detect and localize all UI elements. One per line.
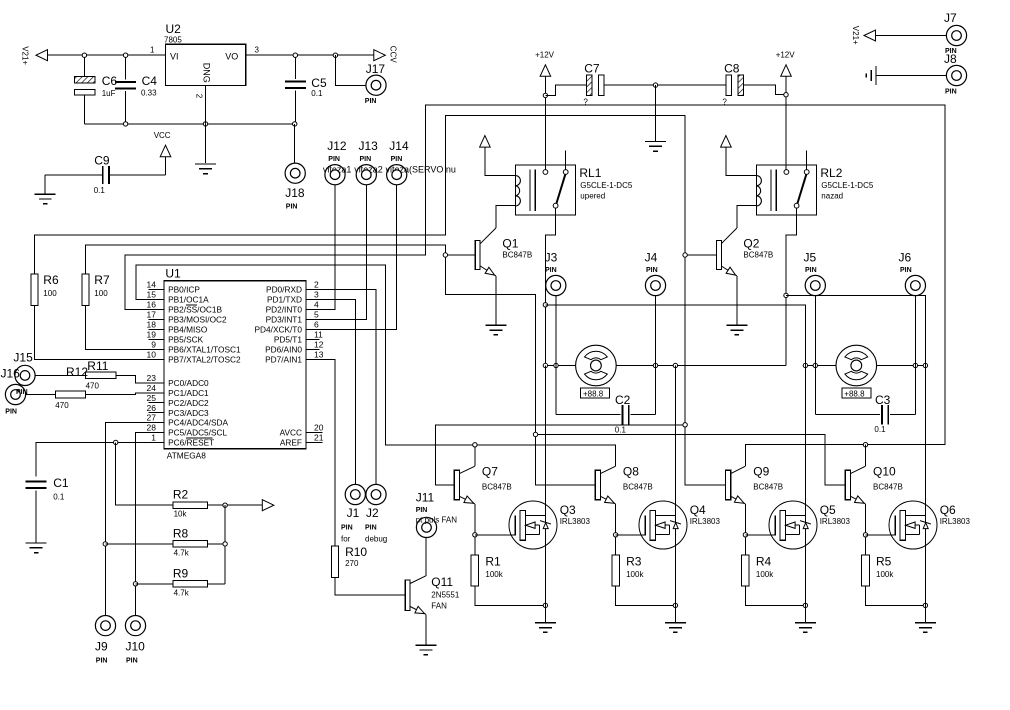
- svg-text:2N5551: 2N5551: [431, 591, 460, 600]
- svg-text:4.7k: 4.7k: [174, 548, 190, 557]
- resistor R7: [82, 274, 89, 306]
- svg-text:470: 470: [86, 382, 100, 391]
- connector J2: [366, 484, 386, 504]
- svg-text:PIN: PIN: [900, 267, 912, 274]
- node motor1 left drain: [543, 363, 547, 367]
- wire +12V to U2 VI: [48, 54, 166, 56]
- wire to mid ground: [655, 85, 657, 141]
- wire J12 to pin4: [322, 185, 335, 309]
- wire branch Q1 base: [445, 254, 475, 256]
- wire J10 line: [136, 433, 149, 616]
- wire R10 to Q11 base: [335, 578, 405, 596]
- resistor R11: [86, 372, 116, 379]
- svg-text:100k: 100k: [876, 570, 894, 579]
- svg-text:PC4/ADC4/SDA: PC4/ADC4/SDA: [168, 418, 228, 428]
- wire pin1 RESET to C1: [36, 442, 148, 476]
- ground Q2: [726, 324, 747, 326]
- svg-text:15: 15: [147, 290, 157, 300]
- node R8 tap J9: [103, 542, 107, 546]
- node motor2 right J6: [913, 363, 917, 367]
- wire J15 to R11: [35, 374, 86, 376]
- svg-text:C1: C1: [53, 476, 69, 490]
- svg-text:V21+: V21+: [21, 46, 30, 65]
- node RL2 common branch: [784, 293, 788, 297]
- svg-text:100k: 100k: [485, 570, 503, 579]
- svg-text:J2: J2: [366, 506, 379, 520]
- svg-text:7805: 7805: [164, 35, 182, 44]
- mosfet Q5 IRL3803: [769, 501, 817, 549]
- relay RL2 G5CLE-1-DC5: [756, 165, 816, 215]
- wire ground Q4: [674, 605, 676, 622]
- ground C9: [35, 193, 56, 195]
- wire RL2 common: [786, 208, 797, 365]
- svg-text:R7: R7: [94, 273, 110, 287]
- node gate Q4: [613, 533, 617, 537]
- svg-text:PB4/MISO: PB4/MISO: [168, 325, 208, 335]
- svg-text:PIN: PIN: [391, 156, 403, 163]
- svg-text:Q8: Q8: [623, 465, 639, 479]
- power arrow VCC pullups: [262, 500, 274, 511]
- connector J18: [285, 163, 305, 183]
- svg-text:470: 470: [55, 401, 69, 410]
- node mid ground: [653, 83, 657, 87]
- wire Q10 emitter to gate and R5: [865, 504, 867, 555]
- svg-text:Q1: Q1: [502, 237, 518, 251]
- relay RL1 G5CLE-1-DC5: [515, 165, 575, 215]
- svg-text:4.7k: 4.7k: [174, 588, 190, 597]
- svg-text:J4: J4: [645, 251, 658, 265]
- node C8 +12V: [784, 93, 788, 97]
- motor M1: [576, 345, 617, 386]
- svg-text:J13: J13: [359, 139, 379, 153]
- wire ground Q5: [804, 605, 806, 622]
- wire R5 to source node: [866, 586, 926, 605]
- svg-text:R8: R8: [173, 526, 189, 540]
- wire U2 VO to VCC arrow: [246, 54, 376, 56]
- wire Q7 emitter to gate and R1: [474, 504, 476, 555]
- wire R9 right: [207, 583, 225, 585]
- wire R8 right: [207, 543, 225, 545]
- svg-text:upered: upered: [580, 192, 605, 201]
- node C5 bottom / J18 branch: [293, 122, 297, 126]
- power arrow at RL1 coil: [480, 136, 491, 148]
- wire pullup bus: [224, 505, 226, 584]
- wire pin2 to J2: [322, 289, 376, 485]
- svg-text:PIN: PIN: [328, 156, 340, 163]
- svg-text:C3: C3: [875, 393, 891, 407]
- svg-text:J10: J10: [126, 640, 146, 654]
- svg-text:C2: C2: [615, 393, 631, 407]
- svg-text:PIN: PIN: [16, 389, 28, 396]
- connector J4: [655, 296, 657, 415]
- capacitor C1: [26, 481, 47, 483]
- capacitor C5: [294, 55, 296, 79]
- node motor1 right drain: [673, 363, 677, 367]
- svg-text:2: 2: [195, 94, 204, 99]
- ground Q11: [415, 644, 436, 646]
- svg-text:R1: R1: [485, 555, 501, 569]
- svg-text:5: 5: [314, 310, 319, 320]
- pin 11 PD5/T1: [306, 338, 320, 340]
- svg-text:11: 11: [314, 330, 323, 340]
- svg-text:C7: C7: [584, 62, 600, 76]
- ground Q6: [915, 622, 936, 624]
- node Q8/Q10 base branch: [533, 432, 537, 436]
- wire R2 to VCC arrow: [207, 504, 264, 506]
- pin 16 PB2/SS/OC1B: [148, 308, 164, 310]
- svg-text:J15: J15: [13, 351, 33, 365]
- wire drain Q3: [544, 366, 546, 606]
- wire U2 pin2 to ground: [205, 86, 207, 164]
- svg-text:PD3/INT1: PD3/INT1: [266, 315, 303, 325]
- wire R3 to source node: [616, 586, 676, 605]
- resistor R3: [612, 555, 620, 586]
- wire to J17: [335, 55, 366, 85]
- wire motor2 row: [805, 365, 925, 367]
- svg-text:100: 100: [43, 289, 57, 298]
- wire R9 left: [136, 583, 174, 585]
- resistor R9: [173, 581, 208, 588]
- node C4 bottom: [123, 122, 127, 126]
- svg-text:3: 3: [314, 290, 319, 300]
- connector J7: [946, 25, 966, 45]
- capacitor C8 polarized: [726, 75, 732, 96]
- wire J8: [876, 75, 946, 77]
- svg-text:J14: J14: [389, 139, 409, 153]
- ground Q5: [795, 622, 816, 624]
- svg-text:IRL3803: IRL3803: [820, 517, 851, 526]
- pin 3 PD1/TXD: [306, 298, 322, 300]
- svg-text:C5: C5: [311, 76, 327, 90]
- svg-text:BC847B: BC847B: [623, 483, 653, 492]
- node R9 tap J10: [133, 582, 137, 586]
- node U2 GND pin: [203, 122, 207, 126]
- wire to J18: [294, 124, 296, 163]
- pin 19 PB5/SCK: [148, 338, 164, 340]
- node motor2 right drain: [923, 363, 927, 367]
- svg-text:Q3: Q3: [560, 503, 576, 517]
- svg-text:J3: J3: [545, 251, 558, 265]
- pin 12 PD6/AIN0: [306, 348, 320, 350]
- wire Q8 emitter to gate and R3: [615, 504, 617, 555]
- wire R6 to pin10: [34, 306, 148, 360]
- wire R4 to source node: [745, 586, 805, 605]
- connector J6: [914, 296, 916, 415]
- resistor R8: [173, 541, 208, 548]
- svg-text:R10: R10: [345, 545, 367, 559]
- svg-text:PB5/SCK: PB5/SCK: [168, 335, 204, 345]
- node Q1 base: [443, 253, 447, 257]
- svg-text:PIN: PIN: [126, 658, 138, 665]
- svg-text:18: 18: [147, 320, 157, 330]
- power arrow VCC out: [374, 50, 386, 61]
- svg-text:PB0/ICP: PB0/ICP: [168, 285, 200, 295]
- svg-text:PD6/AIN0: PD6/AIN0: [265, 345, 302, 355]
- node C4 top: [123, 53, 127, 57]
- svg-text:0.1: 0.1: [53, 493, 65, 502]
- wire jog to C7: [545, 85, 586, 95]
- svg-text:VI: VI: [170, 52, 179, 62]
- wire drain Q5: [804, 342, 806, 606]
- svg-text:10k: 10k: [174, 510, 188, 519]
- connector J12: [325, 165, 345, 185]
- wire R11 to pin23: [116, 375, 148, 383]
- svg-text:13: 13: [314, 350, 324, 360]
- svg-text:26: 26: [147, 403, 157, 413]
- pin 6 PD4/XCK/T0: [306, 328, 322, 330]
- pin 20 AVCC: [306, 432, 322, 434]
- svg-text:1uF: 1uF: [102, 89, 116, 98]
- svg-text:16: 16: [147, 300, 157, 310]
- svg-text:PC6/RESET: PC6/RESET: [168, 438, 214, 448]
- svg-text:23: 23: [147, 373, 157, 383]
- svg-text:Q5: Q5: [820, 503, 836, 517]
- node gate Q5: [743, 533, 747, 537]
- svg-text:BC847B: BC847B: [482, 483, 512, 492]
- svg-text:+12V: +12V: [776, 51, 796, 60]
- node source Q5: [803, 603, 807, 607]
- connector J8: [946, 65, 966, 85]
- wire branch Q10 base: [536, 435, 846, 485]
- wire R12 to pin24: [86, 393, 149, 395]
- wire branch Q2 base: [685, 254, 716, 256]
- node source Q4: [673, 603, 677, 607]
- wire pin13 to R10: [322, 359, 335, 546]
- connector J1: [345, 484, 365, 504]
- connector J13: [356, 165, 376, 185]
- pin 5 PD3/INT1: [306, 318, 322, 320]
- svg-text:PC5/ADC5/SCL: PC5/ADC5/SCL: [168, 428, 227, 438]
- svg-text:PIN: PIN: [365, 525, 377, 532]
- node gate Q6: [863, 533, 867, 537]
- node R8 right: [223, 542, 227, 546]
- svg-text:J6: J6: [899, 251, 912, 265]
- svg-text:BC847B: BC847B: [743, 251, 773, 260]
- power arrow +12V at J7: [864, 30, 876, 41]
- resistor R10: [332, 546, 339, 578]
- svg-text:21: 21: [314, 433, 324, 443]
- svg-text:PIN: PIN: [365, 98, 377, 105]
- wire J9 line: [105, 423, 148, 616]
- svg-text:J5: J5: [804, 251, 817, 265]
- svg-text:Q11: Q11: [431, 575, 453, 589]
- transistor Q10 BC847B: [845, 470, 850, 500]
- connector J9: [95, 616, 115, 636]
- regulator U2 7805: [166, 44, 246, 85]
- node C5 top: [293, 53, 297, 57]
- wire drain Q4: [674, 366, 676, 606]
- svg-text:RL1: RL1: [579, 166, 601, 180]
- svg-text:Q9: Q9: [753, 465, 769, 479]
- pin 28 PC5/ADC5/SCL: [148, 431, 164, 433]
- svg-text:R9: R9: [173, 566, 189, 580]
- svg-text:J9: J9: [95, 640, 108, 654]
- svg-text:VO: VO: [225, 52, 238, 62]
- node Q7 base branch: [683, 423, 687, 427]
- svg-text:RL2: RL2: [820, 166, 842, 180]
- svg-text:VCC: VCC: [154, 131, 171, 140]
- svg-text:20: 20: [314, 423, 324, 433]
- svg-text:17: 17: [147, 310, 157, 320]
- transistor Q1 BC847B: [475, 240, 480, 269]
- svg-text:0.1: 0.1: [615, 425, 627, 434]
- svg-text:100: 100: [94, 289, 108, 298]
- svg-text:C4: C4: [142, 74, 158, 88]
- node source Q3: [543, 603, 547, 607]
- wire RESET down to R2: [116, 442, 173, 505]
- svg-text:U1: U1: [165, 267, 181, 281]
- pin 9 PB6/XTAL1/TOSC1: [148, 348, 164, 350]
- display +88.8 M2: [842, 388, 871, 398]
- svg-text:R2: R2: [173, 488, 189, 502]
- pin 10 PB7/XTAL2/TOSC2: [148, 358, 164, 360]
- capacitor C9: [109, 174, 166, 176]
- wire Q7 collector: [474, 445, 476, 466]
- svg-text:19: 19: [147, 330, 157, 340]
- node motor1 right J4: [653, 363, 657, 367]
- svg-text:PC1/ADC1: PC1/ADC1: [168, 388, 209, 398]
- IC U1 ATMEGA8: [164, 281, 306, 449]
- ground Q4: [665, 622, 686, 624]
- svg-text:27: 27: [147, 413, 157, 423]
- svg-text:PC3/ADC3: PC3/ADC3: [168, 408, 209, 418]
- svg-text:PB2/SS/OC1B: PB2/SS/OC1B: [168, 305, 222, 315]
- pin 17 PB3/MOSI/OC2: [148, 318, 164, 320]
- svg-text:PB1/OC1A: PB1/OC1A: [168, 295, 209, 305]
- wire gate Q3: [475, 534, 515, 536]
- svg-text:3: 3: [255, 46, 260, 55]
- wire gate Q6: [866, 534, 896, 536]
- wire R7 to pin9: [85, 306, 148, 350]
- resistor R1: [471, 555, 479, 586]
- svg-text:R5: R5: [876, 555, 892, 569]
- svg-text:for: for: [341, 535, 351, 544]
- node Q10 collector: [863, 443, 867, 447]
- wire RL1 common: [545, 208, 555, 501]
- pin 1 PC6/RESET: [148, 441, 164, 443]
- svg-text:nazad: nazad: [821, 192, 843, 201]
- svg-text:PD4/XCK/T0: PD4/XCK/T0: [255, 325, 303, 335]
- svg-text:J1: J1: [347, 506, 360, 520]
- svg-text:U2: U2: [166, 22, 182, 36]
- svg-text:DNG: DNG: [201, 63, 211, 83]
- ground Q1: [485, 324, 506, 326]
- svg-text:0.1: 0.1: [94, 186, 106, 195]
- svg-text:J12: J12: [327, 139, 347, 153]
- svg-text:+12V: +12V: [535, 51, 555, 60]
- svg-text:J11: J11: [416, 491, 435, 505]
- svg-text:100k: 100k: [626, 570, 644, 579]
- wire Q10 collector: [865, 445, 867, 467]
- capacitor C4: [125, 55, 127, 79]
- node Q2 base: [683, 253, 687, 257]
- connector J3: [555, 296, 557, 415]
- wire gate Q4: [616, 534, 646, 536]
- svg-text:Q2: Q2: [743, 237, 759, 251]
- svg-text:9: 9: [151, 340, 156, 350]
- connector J14: [387, 165, 407, 185]
- svg-text:2: 2: [314, 280, 319, 290]
- ground at J8: [875, 66, 877, 85]
- node C6/+12V: [82, 53, 86, 57]
- display +88.8 M1: [581, 388, 610, 398]
- wire drain Q6: [924, 342, 926, 606]
- svg-text:Q6: Q6: [940, 503, 956, 517]
- wire J7: [876, 35, 947, 37]
- svg-text:IRL3803: IRL3803: [940, 517, 971, 526]
- wire gate Q5: [745, 534, 775, 536]
- node motor2 left cap tap: [813, 363, 817, 367]
- svg-text:V21+: V21+: [851, 26, 860, 45]
- pin 25 PC2/ADC2: [148, 402, 164, 404]
- svg-text:BC847B: BC847B: [753, 483, 783, 492]
- wire branch Q7 base: [435, 425, 685, 485]
- transistor Q8 BC847B: [595, 470, 600, 500]
- svg-text:PIN: PIN: [545, 267, 557, 274]
- ground U2: [195, 163, 216, 165]
- svg-text:BC847B: BC847B: [502, 251, 532, 260]
- ground bus under regulator: [84, 123, 295, 125]
- connector J11: [416, 517, 436, 537]
- svg-text:J17: J17: [366, 62, 386, 76]
- resistor R12: [55, 391, 85, 398]
- svg-text:PB6/XTAL1/TOSC1: PB6/XTAL1/TOSC1: [168, 345, 241, 355]
- svg-text:1: 1: [150, 46, 155, 55]
- svg-text:1: 1: [151, 433, 156, 443]
- node RESET to R2: [114, 440, 118, 444]
- mosfet Q4 IRL3803: [639, 501, 687, 549]
- svg-text:PD0/RXD: PD0/RXD: [266, 285, 302, 295]
- pin 14 PB0/ICP: [148, 288, 164, 290]
- node C7 +12V: [543, 93, 547, 97]
- svg-text:C8: C8: [724, 62, 740, 76]
- svg-text:R11: R11: [87, 359, 108, 373]
- svg-text:AREF: AREF: [280, 438, 302, 448]
- svg-text:Q7: Q7: [482, 465, 498, 479]
- wire R8 left: [105, 543, 173, 545]
- capacitor C2: [556, 414, 621, 416]
- node RL1 common branch: [543, 303, 547, 307]
- svg-text:28: 28: [147, 423, 157, 433]
- pin 24 PC1/ADC1: [148, 392, 164, 394]
- svg-text:+88.8: +88.8: [583, 389, 604, 398]
- wire motor1 row: [545, 365, 786, 367]
- svg-text:PD5/T1: PD5/T1: [274, 335, 303, 345]
- wire RL1com to motor2 left: [545, 305, 805, 342]
- svg-text:PD2/INT0: PD2/INT0: [266, 305, 303, 315]
- svg-text:R12: R12: [66, 365, 88, 379]
- pin 2 PD0/RXD: [306, 288, 322, 290]
- svg-text:J18: J18: [285, 186, 305, 200]
- capacitor C6 polarized: [83, 55, 85, 76]
- wire Q9 emitter to gate and R4: [744, 504, 746, 555]
- svg-text:Q10: Q10: [873, 465, 896, 479]
- pin 23 PC0/ADC0: [148, 382, 164, 384]
- pin 27 PC4/ADC4/SDA: [148, 422, 164, 424]
- svg-text:0.1: 0.1: [874, 425, 886, 434]
- svg-text:IRL3803: IRL3803: [560, 517, 591, 526]
- svg-text:0.1: 0.1: [311, 89, 323, 98]
- svg-text:G5CLE-1-DC5: G5CLE-1-DC5: [821, 181, 874, 190]
- ground C1: [26, 542, 47, 544]
- connector J15: [15, 365, 35, 385]
- svg-text:G5CLE-1-DC5: G5CLE-1-DC5: [580, 181, 633, 190]
- node Q7 collector: [473, 443, 477, 447]
- svg-text:270: 270: [345, 559, 359, 568]
- svg-text:debug: debug: [365, 535, 387, 544]
- svg-text:PIN: PIN: [945, 89, 957, 96]
- capacitor C7 polarized: [587, 75, 593, 96]
